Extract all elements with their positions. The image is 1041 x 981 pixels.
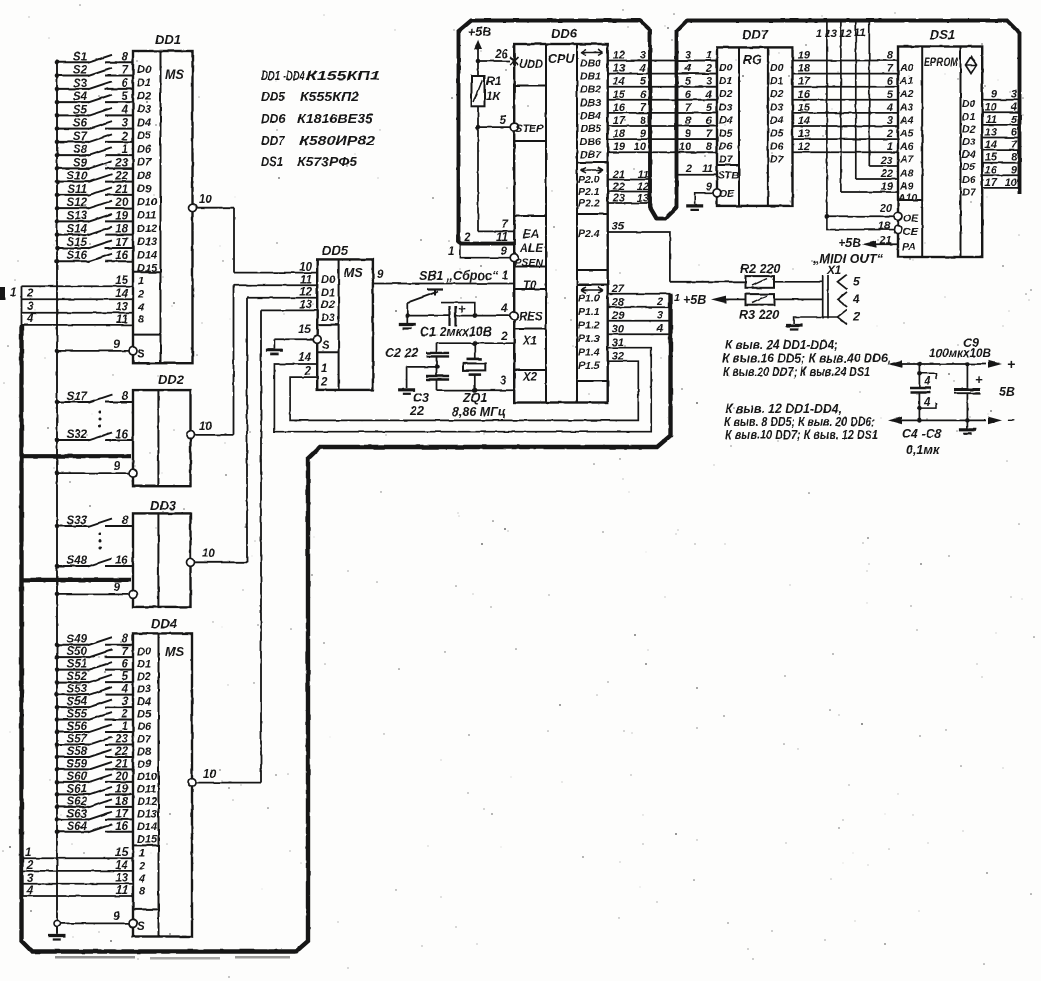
svg-text:18: 18	[115, 796, 128, 808]
svg-text:4: 4	[26, 313, 34, 325]
svg-text:100мкх10В: 100мкх10В	[929, 346, 991, 360]
svg-text:D8: D8	[137, 170, 152, 182]
svg-text:5: 5	[1011, 114, 1018, 126]
svg-text:S54: S54	[67, 696, 88, 708]
svg-text:16: 16	[115, 555, 128, 567]
svg-text:8: 8	[1011, 152, 1018, 164]
svg-text:DB5: DB5	[580, 123, 601, 135]
svg-text:7: 7	[1011, 139, 1018, 151]
svg-text:D15: D15	[137, 833, 158, 845]
svg-text:10: 10	[985, 101, 998, 113]
svg-text:D0: D0	[770, 62, 784, 74]
svg-text:S2: S2	[73, 65, 88, 77]
svg-text:9: 9	[640, 128, 647, 140]
svg-text:5: 5	[853, 274, 860, 288]
svg-text:S60: S60	[67, 771, 88, 783]
svg-text:OE: OE	[903, 213, 919, 225]
svg-text:D6: D6	[137, 721, 152, 733]
svg-text:12: 12	[637, 181, 649, 193]
svg-text:2: 2	[656, 296, 663, 308]
svg-text:8: 8	[685, 115, 692, 127]
svg-text:D13: D13	[137, 808, 157, 820]
svg-text:7: 7	[685, 102, 692, 114]
svg-text:4: 4	[705, 89, 712, 101]
svg-text:S10: S10	[67, 171, 88, 183]
svg-text:D2: D2	[770, 88, 784, 100]
svg-text:К1816ВЕ35: К1816ВЕ35	[297, 111, 374, 126]
svg-text:CPU: CPU	[548, 52, 575, 66]
svg-text:DS1: DS1	[930, 27, 955, 42]
svg-text:13: 13	[985, 127, 997, 139]
svg-text:+5В: +5В	[838, 236, 861, 250]
svg-text:P1.2: P1.2	[578, 320, 600, 332]
svg-text:К выв. 24 DD1-DD4;: К выв. 24 DD1-DD4;	[725, 338, 838, 352]
svg-text:S57: S57	[67, 733, 88, 745]
svg-text:15: 15	[298, 324, 311, 336]
svg-text:D7: D7	[770, 154, 785, 166]
svg-text:MS: MS	[165, 645, 184, 659]
svg-text:11: 11	[986, 114, 997, 126]
svg-text:D7: D7	[962, 186, 977, 198]
svg-text:S50: S50	[67, 646, 88, 658]
svg-text:A9: A9	[899, 181, 914, 193]
svg-text:D3: D3	[137, 104, 151, 116]
svg-text:DD2: DD2	[158, 372, 185, 387]
svg-text:6: 6	[887, 76, 894, 88]
svg-text:–: –	[1007, 411, 1015, 427]
svg-text:10: 10	[634, 141, 647, 153]
svg-text:8: 8	[122, 634, 129, 646]
svg-text:18: 18	[115, 224, 128, 236]
svg-text:4: 4	[923, 397, 931, 409]
svg-text:К выв.10 DD7; К выв. 12 DS1: К выв.10 DD7; К выв. 12 DS1	[725, 428, 878, 442]
svg-text:DD6: DD6	[551, 26, 578, 41]
svg-text:DD1 -DD4: DD1 -DD4	[261, 68, 306, 83]
svg-text:К выв.16 DD5; К выв.40 DD6,: К выв.16 DD5; К выв.40 DD6,	[722, 352, 891, 366]
svg-text:5: 5	[887, 89, 894, 101]
svg-text:S5: S5	[73, 104, 88, 116]
svg-text:17: 17	[115, 808, 128, 820]
svg-text:3: 3	[27, 873, 34, 885]
svg-text:DD5: DD5	[322, 243, 349, 258]
svg-text:D4: D4	[962, 149, 976, 161]
svg-text:8: 8	[122, 391, 129, 403]
svg-text:31: 31	[612, 337, 624, 349]
svg-text:16: 16	[115, 250, 128, 262]
svg-text:2: 2	[121, 709, 129, 721]
svg-text:A3: A3	[899, 101, 914, 113]
svg-text:11: 11	[496, 232, 508, 244]
svg-text:CE: CE	[903, 226, 919, 238]
svg-text:10: 10	[1005, 177, 1018, 189]
svg-text:3: 3	[685, 50, 691, 62]
svg-text:P2.0: P2.0	[578, 174, 600, 186]
svg-text:10: 10	[199, 421, 212, 433]
svg-text:S53: S53	[67, 684, 88, 696]
svg-text:D15: D15	[137, 263, 158, 275]
svg-text:1: 1	[706, 50, 712, 62]
svg-text:DB4: DB4	[580, 110, 601, 122]
svg-text:9: 9	[114, 339, 121, 351]
svg-text:2: 2	[26, 860, 34, 872]
svg-text:DB1: DB1	[580, 71, 601, 83]
svg-text:S63: S63	[67, 808, 88, 820]
svg-text:3: 3	[1011, 89, 1017, 101]
svg-text:2: 2	[500, 331, 508, 343]
svg-text:7: 7	[706, 128, 713, 140]
svg-text:D7: D7	[719, 154, 734, 166]
svg-text:A5: A5	[899, 128, 914, 140]
svg-text:STB: STB	[718, 170, 739, 182]
svg-text:9: 9	[114, 582, 121, 594]
svg-text:S59: S59	[67, 758, 88, 770]
svg-text:D3: D3	[770, 101, 784, 113]
svg-text:ALE: ALE	[519, 243, 543, 255]
svg-text:S51: S51	[67, 659, 87, 671]
svg-text:D3: D3	[321, 312, 335, 324]
svg-text:2: 2	[705, 63, 712, 75]
svg-text:A8: A8	[899, 168, 914, 180]
svg-text:D7: D7	[137, 734, 152, 746]
svg-text:DB6: DB6	[580, 136, 601, 148]
svg-text:DD6: DD6	[261, 111, 286, 126]
svg-text:К155КП1: К155КП1	[306, 68, 380, 83]
svg-text:11: 11	[702, 163, 713, 175]
svg-text:15: 15	[798, 102, 811, 114]
svg-text:D1: D1	[962, 111, 976, 123]
svg-text:22: 22	[114, 171, 128, 183]
svg-text:2: 2	[137, 289, 144, 301]
svg-text:12: 12	[839, 28, 851, 40]
svg-text:8: 8	[640, 115, 647, 127]
svg-text:MS: MS	[344, 266, 363, 280]
svg-text:D2: D2	[321, 299, 335, 311]
svg-text:К выв. 12 DD1-DD4,: К выв. 12 DD1-DD4,	[725, 402, 842, 416]
svg-text:1К: 1К	[486, 89, 502, 103]
svg-text:S32: S32	[67, 429, 88, 441]
svg-text:1: 1	[139, 848, 145, 860]
svg-text:3: 3	[122, 118, 129, 130]
svg-text:S7: S7	[73, 131, 88, 143]
svg-text:15: 15	[115, 847, 128, 859]
svg-text:13: 13	[798, 128, 810, 140]
svg-text:1: 1	[816, 28, 822, 40]
svg-text:S13: S13	[67, 210, 88, 222]
svg-text:1: 1	[674, 292, 680, 304]
svg-text:1: 1	[122, 721, 128, 733]
svg-text:К555КП2: К555КП2	[300, 89, 360, 104]
svg-text:S61: S61	[67, 783, 87, 795]
svg-text:17: 17	[613, 115, 626, 127]
svg-text:9: 9	[377, 269, 384, 281]
svg-text:D5: D5	[137, 130, 152, 142]
svg-text:11: 11	[638, 169, 649, 181]
svg-text:2: 2	[320, 377, 328, 389]
svg-text:R1: R1	[486, 74, 502, 88]
svg-text:D4: D4	[719, 114, 733, 126]
svg-text:К выв. 8 DD5; К выв. 20 DD6:: К выв. 8 DD5; К выв. 20 DD6:	[724, 415, 875, 429]
svg-text:P1.1: P1.1	[578, 306, 600, 318]
svg-text:S49: S49	[67, 634, 88, 646]
svg-text:DD3: DD3	[150, 498, 177, 513]
svg-text:4: 4	[923, 376, 931, 388]
svg-text:A7: A7	[899, 154, 915, 166]
svg-text:D1: D1	[137, 77, 151, 89]
svg-text:15: 15	[613, 89, 626, 101]
svg-text:6: 6	[640, 89, 647, 101]
svg-text:+5В: +5В	[468, 25, 491, 39]
svg-text:DS1: DS1	[261, 154, 283, 169]
svg-text:5: 5	[122, 91, 129, 103]
svg-text:5: 5	[706, 102, 713, 114]
svg-text:DD4: DD4	[151, 616, 178, 631]
svg-text:D12: D12	[137, 796, 157, 808]
svg-text:T0: T0	[523, 280, 537, 292]
svg-text:S16: S16	[67, 250, 88, 262]
svg-text:D7: D7	[137, 157, 152, 169]
svg-text:D0: D0	[719, 62, 733, 74]
svg-text:23: 23	[114, 157, 128, 169]
svg-text:+: +	[975, 372, 983, 387]
svg-text:D4: D4	[137, 117, 151, 129]
svg-text:A0: A0	[899, 62, 914, 74]
svg-text:22: 22	[114, 746, 128, 758]
svg-text:3: 3	[27, 301, 34, 313]
svg-text:1: 1	[10, 287, 16, 299]
svg-text:R2 220: R2 220	[740, 262, 780, 276]
svg-text:14: 14	[115, 288, 128, 300]
svg-text:RES: RES	[519, 312, 543, 324]
svg-text:23: 23	[612, 193, 625, 205]
svg-text:13: 13	[637, 193, 649, 205]
svg-text:EA: EA	[523, 229, 539, 241]
svg-text:D3: D3	[137, 684, 151, 696]
svg-text:8: 8	[887, 50, 894, 62]
svg-text:6: 6	[122, 78, 129, 90]
svg-text:S6: S6	[73, 118, 88, 130]
svg-text:S1: S1	[73, 51, 87, 63]
svg-text:„MIDI OUT“: „MIDI OUT“	[812, 252, 884, 266]
svg-text:DD1: DD1	[155, 32, 181, 47]
svg-text:X2: X2	[522, 372, 538, 384]
svg-text:14: 14	[613, 76, 625, 88]
svg-text:C3: C3	[413, 391, 429, 405]
svg-text:A1: A1	[899, 75, 914, 87]
svg-text:11: 11	[116, 885, 128, 897]
svg-text:DD7: DD7	[742, 27, 769, 42]
svg-text:S48: S48	[67, 555, 88, 567]
svg-text:P1.0: P1.0	[578, 293, 600, 305]
svg-text:9: 9	[706, 181, 713, 193]
svg-text:4: 4	[886, 102, 893, 114]
svg-text:DD7: DD7	[261, 133, 286, 148]
svg-text:6: 6	[122, 659, 129, 671]
svg-text:D1: D1	[770, 75, 784, 87]
svg-text:8: 8	[122, 51, 129, 63]
svg-text:15: 15	[985, 152, 998, 164]
svg-text:8: 8	[706, 141, 713, 153]
svg-text:23: 23	[880, 155, 893, 167]
svg-text:9: 9	[1011, 164, 1018, 176]
svg-text:S52: S52	[67, 671, 88, 683]
svg-text:D12: D12	[137, 223, 157, 235]
svg-text:S15: S15	[67, 237, 88, 249]
svg-text:D6: D6	[770, 141, 784, 153]
svg-text:A10: A10	[897, 192, 917, 204]
svg-text:22: 22	[409, 404, 424, 418]
svg-text:S: S	[322, 340, 330, 352]
svg-text:16: 16	[798, 89, 811, 101]
svg-text:STEP: STEP	[515, 123, 544, 135]
svg-text:P1.3: P1.3	[578, 333, 600, 345]
svg-text:D11: D11	[137, 210, 156, 222]
svg-text:2: 2	[852, 310, 860, 324]
svg-text:+: +	[1007, 356, 1015, 372]
svg-text:S3: S3	[73, 78, 88, 90]
svg-text:SB1 „Сброс“: SB1 „Сброс“	[419, 269, 499, 283]
svg-text:OE: OE	[719, 188, 735, 200]
svg-text:P2.2: P2.2	[578, 198, 600, 210]
svg-text:4: 4	[852, 292, 860, 306]
svg-text:X1: X1	[522, 336, 537, 348]
svg-text:RG: RG	[743, 53, 762, 67]
svg-text:4: 4	[684, 63, 691, 75]
svg-text:D6: D6	[719, 141, 733, 153]
svg-text:A6: A6	[899, 141, 914, 153]
svg-text:20: 20	[114, 771, 128, 783]
svg-text:UDD: UDD	[519, 59, 543, 71]
svg-text:13: 13	[115, 873, 128, 885]
svg-text:D2: D2	[137, 671, 151, 683]
svg-text:9: 9	[685, 128, 692, 140]
svg-text:16: 16	[985, 164, 998, 176]
svg-text:D13: D13	[137, 236, 157, 248]
svg-text:0,1мк: 0,1мк	[906, 443, 940, 457]
svg-text:19: 19	[115, 210, 128, 222]
svg-text:20: 20	[114, 197, 128, 209]
svg-text:6: 6	[1011, 127, 1018, 139]
svg-text:4: 4	[639, 63, 646, 75]
svg-text:D3: D3	[962, 136, 976, 148]
svg-text:P2.1: P2.1	[578, 186, 600, 198]
svg-text:7: 7	[122, 65, 129, 77]
svg-text:D11: D11	[137, 783, 156, 795]
svg-text:S8: S8	[73, 144, 88, 156]
svg-text:ZQ1: ZQ1	[462, 391, 487, 405]
svg-text:32: 32	[612, 351, 624, 363]
svg-text:D4: D4	[137, 696, 151, 708]
svg-text:DD5: DD5	[261, 89, 286, 104]
svg-text:4: 4	[137, 302, 144, 314]
svg-text:D2: D2	[719, 88, 733, 100]
svg-text:C4 -С8: C4 -С8	[902, 427, 942, 441]
svg-text:D1: D1	[719, 75, 733, 87]
svg-text:D14: D14	[137, 821, 157, 833]
svg-text:D6: D6	[962, 174, 976, 186]
svg-text:3: 3	[640, 50, 646, 62]
svg-text:S11: S11	[67, 184, 87, 196]
svg-text:10: 10	[202, 548, 215, 560]
svg-text:12: 12	[613, 50, 625, 62]
svg-text:P2.4: P2.4	[578, 228, 600, 240]
svg-text:D3: D3	[719, 101, 733, 113]
svg-text:S4: S4	[73, 91, 88, 103]
svg-text:4: 4	[138, 873, 145, 885]
svg-text:3: 3	[706, 76, 712, 88]
svg-text:6: 6	[685, 89, 692, 101]
svg-text:2: 2	[685, 163, 692, 175]
svg-text:10: 10	[199, 194, 212, 206]
svg-text:D0: D0	[137, 64, 152, 76]
svg-text:D14: D14	[137, 249, 157, 261]
svg-text:1: 1	[122, 144, 128, 156]
svg-text:PSEN: PSEN	[515, 257, 544, 269]
svg-text:18: 18	[878, 220, 891, 232]
svg-text:11: 11	[116, 314, 128, 326]
svg-text:10: 10	[203, 769, 216, 781]
svg-text:S14: S14	[67, 224, 88, 236]
svg-text:13: 13	[613, 63, 625, 75]
svg-text:S: S	[137, 921, 145, 933]
svg-text:8: 8	[122, 515, 129, 527]
svg-text:D8: D8	[137, 746, 152, 758]
svg-text:D0: D0	[962, 98, 976, 110]
svg-text:9: 9	[991, 89, 998, 101]
svg-text:S9: S9	[73, 157, 88, 169]
svg-text:21: 21	[114, 758, 128, 770]
svg-text:7: 7	[887, 63, 894, 75]
svg-text:2: 2	[304, 366, 312, 378]
svg-text:D5: D5	[719, 128, 733, 140]
svg-text:C2 22: C2 22	[385, 346, 418, 360]
svg-text:D2: D2	[137, 90, 151, 102]
svg-text:4: 4	[500, 303, 508, 315]
svg-text:4: 4	[1010, 101, 1017, 113]
svg-text:К выв.20 DD7; К выв.24 DS1: К выв.20 DD7; К выв.24 DS1	[723, 365, 870, 379]
svg-text:D10: D10	[137, 771, 158, 783]
svg-text:S55: S55	[67, 709, 88, 721]
svg-text:DB7: DB7	[580, 149, 602, 161]
svg-text:7: 7	[640, 102, 647, 114]
svg-text:3: 3	[657, 310, 663, 322]
svg-text:4: 4	[121, 684, 129, 696]
svg-text:16: 16	[115, 429, 128, 441]
svg-text:D10: D10	[137, 196, 158, 208]
svg-text:1: 1	[502, 270, 508, 282]
svg-text:17: 17	[115, 237, 128, 249]
svg-text:4: 4	[26, 885, 34, 897]
svg-text:9: 9	[501, 246, 508, 258]
svg-text:8,86 МГц: 8,86 МГц	[452, 405, 506, 419]
svg-text:5В: 5В	[999, 385, 1015, 399]
svg-text:EPROM: EPROM	[924, 57, 958, 69]
svg-text:+5В: +5В	[683, 293, 706, 307]
svg-text:D5: D5	[770, 128, 784, 140]
svg-text:D9: D9	[137, 183, 152, 195]
svg-text:3: 3	[887, 115, 893, 127]
svg-text:D5: D5	[962, 161, 976, 173]
svg-text:S56: S56	[67, 721, 88, 733]
svg-text:21: 21	[114, 184, 128, 196]
svg-text:26: 26	[494, 49, 508, 61]
svg-text:8: 8	[138, 314, 145, 326]
svg-text:1: 1	[321, 363, 327, 375]
svg-text:PA: PA	[902, 241, 916, 253]
svg-text:C1 2мкх10В: C1 2мкх10В	[420, 325, 492, 339]
svg-text:2: 2	[26, 288, 34, 300]
svg-text:7: 7	[122, 646, 129, 658]
svg-text:11: 11	[854, 27, 865, 39]
